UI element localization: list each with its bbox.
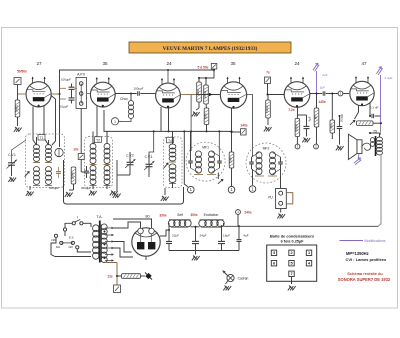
- dial lamp Cadran: [227, 274, 234, 281]
- transformer T1 dashed box: [26, 134, 65, 188]
- svg-text:VEUVE MARTIN 7 LAMPES (1932/1: VEUVE MARTIN 7 LAMPES (1932/1933): [163, 45, 258, 52]
- capacitor C5 2µF: [322, 91, 324, 95]
- svg-text:SONORA SUPER7 DE 1932: SONORA SUPER7 DE 1932: [338, 277, 391, 282]
- wire top grid bus: [60, 70, 215, 147]
- svg-text:Excitation: Excitation: [204, 213, 219, 217]
- wire R1 bottom: [17, 117, 19, 126]
- wire MF1 coil tan bottoms: [194, 174, 203, 176]
- svg-text:5: 5: [290, 262, 292, 266]
- antenna terminal box: [14, 78, 21, 85]
- wire V5 cathode: [297, 107, 299, 115]
- wire TA to V7 top a: [113, 222, 141, 228]
- wire selector loop: [51, 237, 91, 256]
- resistor R1 grid leak: [15, 100, 20, 117]
- svg-text:1: 1: [315, 145, 317, 149]
- svg-text:Schéma revisité du: Schéma revisité du: [347, 271, 383, 276]
- MF1 coil right: [209, 151, 215, 158]
- svg-text:10µµF: 10µµF: [60, 105, 69, 109]
- ground below T1: [26, 191, 34, 196]
- switch mark right of R13: [143, 271, 153, 281]
- svg-text:T4: T4: [168, 139, 172, 143]
- T4 switch: [162, 161, 169, 169]
- svg-text:1MEG: 1MEG: [15, 105, 19, 112]
- wire PU bottom: [280, 209, 282, 213]
- wire heater drop x117: [106, 262, 117, 264]
- choke Self winding: [169, 219, 191, 221]
- wire I left: [65, 223, 72, 236]
- purple mark 4.3µF: [375, 66, 383, 75]
- wire V4 plate to MF2: [247, 95, 253, 158]
- svg-text:80: 80: [145, 215, 149, 219]
- wire R13 right: [141, 275, 146, 277]
- capacitor C8 22µF: [166, 241, 172, 243]
- legend purple line: [340, 240, 364, 242]
- wire MF1 right drop: [217, 173, 219, 180]
- wire V3 plate to V4 grid: [181, 94, 197, 96]
- T5 small loops left: [371, 138, 375, 143]
- wire strip bottom down: [80, 109, 82, 154]
- wire B+ line: [224, 225, 379, 227]
- svg-text:T2: T2: [96, 138, 100, 142]
- svg-text:Cadran: Cadran: [238, 277, 249, 281]
- wire choke top: [130, 94, 132, 102]
- T4 label box: [167, 137, 174, 143]
- svg-text:Choc: Choc: [120, 97, 128, 101]
- svg-text:2: 2: [290, 251, 292, 255]
- tetrode tube V3 24: [156, 61, 181, 108]
- svg-text:6: 6: [273, 262, 275, 266]
- T5 winding: [377, 137, 383, 141]
- T1 coil primary bottom: [34, 166, 40, 171]
- wire R1 top: [17, 94, 19, 100]
- junction dots mid bus: [153, 130, 155, 132]
- wire mid bus: [104, 110, 232, 131]
- svg-text:T.A.: T.A.: [96, 215, 102, 219]
- wire plate V2 to C3: [115, 93, 137, 95]
- wire T5 down right: [378, 155, 381, 227]
- wire 7e to R5: [267, 84, 269, 95]
- svg-text:24: 24: [294, 61, 300, 66]
- svg-text:35: 35: [102, 61, 108, 66]
- fuse box: [114, 285, 121, 293]
- MF1 switch: [217, 178, 225, 185]
- IF transformer MF1 dashed circle: [186, 142, 225, 181]
- excitation winding: [200, 219, 224, 221]
- wire MF1 coil feed: [190, 95, 192, 152]
- wire choke bottom: [119, 118, 131, 122]
- wire antenna to grid: [17, 85, 19, 95]
- svg-text:110: 110: [56, 245, 61, 249]
- svg-text:25000: 25000: [71, 171, 75, 179]
- T2 capacitor: [84, 170, 89, 172]
- T2 coil B: [104, 143, 110, 149]
- wire T1 tops up: [36, 137, 38, 145]
- switch contact near R9: [349, 119, 357, 126]
- wire R7 top: [316, 94, 318, 109]
- svg-text:2µF: 2µF: [320, 86, 326, 90]
- tetrode tube V4 35: [220, 61, 246, 108]
- T1 coil secondary bottom: [46, 166, 52, 171]
- capacitor C7: [337, 126, 343, 128]
- T2 coil C: [90, 165, 96, 171]
- resistor box 140e: [241, 129, 247, 135]
- wire C8 bottom: [168, 244, 170, 251]
- pentode tube V6 47: [350, 61, 374, 106]
- PU side tab: [286, 193, 293, 204]
- resistor R10 tall: [71, 167, 76, 184]
- title banner: [129, 42, 291, 53]
- svg-text:10e: 10e: [73, 148, 79, 152]
- T1 coil primary top: [34, 145, 40, 150]
- svg-text:110: 110: [68, 245, 73, 249]
- ground near speaker: [336, 146, 344, 151]
- svg-text:240e: 240e: [244, 211, 252, 215]
- voice coil loop: [362, 143, 371, 150]
- T4 coil top: [169, 144, 176, 149]
- IF transformer MF2 dashed circle: [246, 143, 286, 183]
- wire one to V6: [343, 93, 349, 95]
- svg-text:220: 220: [51, 238, 56, 242]
- resistor R3: [204, 85, 209, 104]
- svg-text:145: 145: [314, 115, 318, 120]
- condenser cells row2: [271, 261, 276, 266]
- A.P.II terminals: [79, 82, 83, 86]
- T1 switch: [23, 170, 30, 178]
- wire T1 bottom gnd: [29, 186, 31, 190]
- wire V2 cathode down: [93, 106, 97, 144]
- wire one240 drop: [237, 214, 239, 226]
- svg-text:E.S.: E.S.: [69, 236, 75, 240]
- TA primary winding: [93, 225, 99, 232]
- wire strip to tube2: [87, 93, 91, 95]
- svg-text:30000: 30000: [295, 123, 299, 131]
- MF1 cap left: [188, 160, 193, 162]
- rectifier tube V7 80: [132, 228, 160, 256]
- svg-text:16µF: 16µF: [223, 234, 230, 238]
- wire V4 cathode down: [231, 108, 233, 152]
- TA taps: [105, 227, 113, 229]
- TA core: [99, 221, 101, 263]
- svg-text:145e: 145e: [318, 100, 326, 104]
- ground below lamp: [223, 286, 231, 291]
- selector lever: [61, 242, 73, 244]
- wire caps common: [169, 250, 239, 252]
- resistor R8 box: [330, 120, 335, 133]
- wire I to TA: [83, 222, 91, 224]
- wire lamp top: [223, 271, 228, 276]
- svg-text:200µµ: 200µµ: [340, 114, 344, 122]
- wire V6 cathode down: [358, 105, 360, 112]
- trimmer box 7e: [265, 77, 271, 84]
- MF1 cap right: [217, 160, 222, 162]
- ground below T2 a: [89, 191, 97, 196]
- wire V7 anodes from taps: [113, 242, 132, 253]
- resistor R5: [266, 100, 271, 118]
- A.P.II terminal link wire: [80, 84, 82, 104]
- variable capacitor CV2: [127, 161, 134, 163]
- svg-text:1: 1: [308, 251, 310, 255]
- wire CV1 bottom: [11, 165, 13, 176]
- wire V3 top bus drop: [167, 69, 169, 83]
- wire CV1 top: [12, 140, 27, 163]
- resistor R2: [197, 82, 202, 102]
- pickup PU box: [276, 189, 287, 209]
- capacitor C6 0.1nF: [371, 114, 373, 118]
- T2 coil D: [104, 165, 110, 171]
- wire R10 down: [73, 184, 75, 190]
- purple mark speaker: [357, 154, 360, 160]
- wire MF1 left drop: [183, 131, 185, 175]
- svg-text:7: 7: [290, 272, 292, 276]
- wire 10e: [80, 160, 82, 173]
- wire T2 downs: [92, 184, 94, 189]
- wire cap to bus: [60, 87, 67, 89]
- wire T4 bottom: [172, 182, 174, 188]
- condenser cells row1: [271, 250, 276, 255]
- wire T2 tops: [92, 132, 94, 145]
- ground below T2 left: [65, 192, 73, 197]
- capacitor C3 100µµF: [137, 91, 139, 95]
- T1 coil secondary top: [46, 145, 52, 150]
- svg-text:5 à 50e: 5 à 50e: [198, 66, 209, 70]
- wire C3 to V3: [140, 93, 155, 95]
- MF2 coil right: [270, 152, 276, 159]
- svg-text:500: 500: [330, 124, 334, 129]
- wire R7 bottom: [316, 127, 318, 144]
- svg-text:100µµF: 100µµF: [61, 78, 71, 82]
- wire R9 right: [373, 122, 381, 124]
- wire R8 down: [331, 133, 333, 139]
- terminal one near speaker: [314, 144, 319, 149]
- resistor box 10e: [78, 154, 84, 160]
- tetrode tube V5 24: [284, 61, 310, 107]
- svg-text:1: 1: [297, 145, 299, 149]
- svg-text:4µF: 4µF: [308, 116, 312, 121]
- resistor R11: [229, 152, 234, 168]
- wire T5 top: [379, 133, 381, 138]
- capacitor C2 plates: [69, 97, 75, 99]
- svg-text:50000: 50000: [265, 105, 269, 113]
- svg-text:35: 35: [230, 61, 236, 66]
- svg-text:5000: 5000: [204, 113, 208, 119]
- svg-text:6 fois 0.25µF: 6 fois 0.25µF: [281, 239, 305, 243]
- switch I contacts: [72, 222, 75, 225]
- T1 capacitor tan: [56, 171, 61, 173]
- wire 140e: [232, 131, 241, 133]
- svg-text:T1: T1: [40, 136, 44, 140]
- ground below caps: [192, 256, 200, 261]
- svg-text:A.P.II: A.P.II: [77, 73, 85, 77]
- speaker coil box: [357, 140, 362, 154]
- wire R3-R4: [205, 104, 208, 108]
- wire lamp bottom: [226, 281, 229, 285]
- ground below T2 b: [110, 191, 118, 196]
- T2 coil A: [90, 143, 96, 149]
- wire V6 plate down: [369, 103, 371, 117]
- voltage selector circles: [54, 234, 57, 237]
- svg-text:1500: 1500: [229, 157, 233, 163]
- svg-text:1: 1: [237, 210, 239, 214]
- svg-text:47: 47: [361, 61, 367, 66]
- tetrode tube V2 35: [90, 61, 115, 107]
- wire choke left: [168, 223, 170, 241]
- resistor R7: [314, 108, 319, 127]
- terminal one near V6: [338, 91, 343, 96]
- wire MF1 rightcap drop: [218, 131, 220, 156]
- wire TA to V7 top b: [113, 219, 152, 228]
- svg-text:5000: 5000: [196, 89, 200, 95]
- condenser box rect: [267, 245, 317, 281]
- wire T4-CV3 link: [149, 131, 154, 154]
- TA tap dots: [104, 231, 106, 233]
- MF2 cap left: [249, 161, 254, 163]
- trimmer box 5a50: [211, 64, 217, 70]
- wire left drop x333: [331, 94, 333, 121]
- ground below R2: [192, 112, 200, 117]
- svg-text:PU: PU: [268, 196, 273, 200]
- svg-text:12e: 12e: [107, 275, 113, 279]
- condenser cell 7: [289, 271, 294, 276]
- svg-text:1: 1: [114, 120, 116, 124]
- svg-text:2µF: 2µF: [322, 73, 328, 77]
- svg-text:Self: Self: [177, 213, 183, 217]
- wire condenser gnd: [291, 277, 293, 285]
- capacitor C1 plates: [69, 86, 75, 88]
- svg-text:Boîte de condensateurs: Boîte de condensateurs: [270, 233, 314, 238]
- variable capacitor CV1: [8, 162, 15, 164]
- svg-text:24µF: 24µF: [200, 234, 207, 238]
- wire V1 plate right: [51, 93, 59, 95]
- wire heater return loop: [64, 160, 184, 204]
- wire CV3 leads: [148, 154, 150, 164]
- svg-text:4µF: 4µF: [243, 234, 248, 238]
- T2 label box: [95, 137, 102, 143]
- resistor R13: [122, 274, 141, 279]
- svg-text:MP=1350Hz: MP=1350Hz: [346, 251, 369, 256]
- svg-text:24: 24: [166, 61, 172, 66]
- svg-text:4.3µF: 4.3µF: [385, 76, 393, 80]
- T1 trimmer circle: [55, 148, 63, 156]
- svg-text:CVI : Lames profilées: CVI : Lames profilées: [346, 257, 387, 262]
- TA secondary winding: [101, 224, 107, 230]
- T4 coil bottom: [169, 164, 176, 169]
- svg-text:C.V.1: C.V.1: [8, 153, 16, 157]
- purple mark 2µF: [312, 62, 320, 71]
- svg-text:3: 3: [273, 251, 275, 255]
- resistor divider top link: [199, 77, 214, 79]
- A.P.II box: [76, 78, 87, 109]
- resistor R9: [357, 121, 374, 126]
- svg-text:330e: 330e: [159, 214, 167, 218]
- choke coil: [128, 100, 133, 105]
- wire CV2 leads: [129, 152, 131, 162]
- wire V1 cathode down: [33, 107, 37, 146]
- svg-text:I: I: [77, 216, 78, 220]
- wire V3 cathode down: [160, 107, 162, 131]
- svg-text:100µµF: 100µµF: [134, 87, 144, 91]
- wire V7 cathode right: [160, 230, 169, 236]
- switch ground right: [302, 138, 310, 143]
- PU terminals: [279, 191, 283, 195]
- svg-text:Modifications: Modifications: [365, 239, 386, 243]
- triode tube V1 27: [26, 61, 51, 107]
- terminal one below MF2 left: [249, 186, 256, 193]
- svg-text:MF1: MF1: [202, 146, 209, 150]
- ground below T4: [161, 196, 169, 201]
- svg-text:300e: 300e: [190, 213, 198, 217]
- svg-text:7e: 7e: [266, 71, 270, 75]
- svg-text:0.1 nF: 0.1 nF: [370, 106, 379, 110]
- MF2 coil left: [256, 152, 262, 159]
- ground below R1: [14, 127, 22, 132]
- wire one V4 drop: [252, 169, 254, 185]
- svg-text:1: 1: [340, 92, 342, 96]
- wire R2 top: [198, 78, 200, 82]
- svg-text:300µµF: 300µµF: [49, 186, 59, 190]
- wire MF2 right down to PU: [280, 169, 282, 188]
- ground below condenser box: [288, 286, 296, 291]
- wire T4 top: [172, 132, 174, 145]
- wire MF2 coil tan bottoms: [255, 175, 264, 177]
- transformer T4 dashed box: [164, 137, 183, 188]
- terminal one below R11: [228, 186, 235, 193]
- speaker cone: [348, 134, 357, 159]
- svg-text:22µF: 22µF: [172, 234, 179, 238]
- MF2 cap right: [278, 161, 283, 163]
- MF1 coil left: [196, 151, 202, 158]
- battery circle B: [111, 118, 118, 125]
- wire R11: [231, 168, 233, 187]
- variable capacitor CV3: [146, 163, 153, 165]
- svg-text:27: 27: [36, 61, 42, 66]
- svg-text:140e: 140e: [240, 124, 248, 128]
- terminal one x297: [295, 144, 300, 149]
- wire choke right to excitation: [191, 226, 200, 228]
- svg-text:50/50e: 50/50e: [17, 70, 27, 74]
- wire selector to TA: [77, 249, 91, 252]
- transformer T2 dashed box: [85, 137, 113, 188]
- resistor R6: [295, 119, 300, 137]
- output transformer T5 core: [375, 136, 377, 156]
- terminal one 240e: [236, 210, 241, 215]
- T1 label box: [38, 135, 45, 141]
- ground below PU: [277, 214, 285, 219]
- svg-text:MF2: MF2: [263, 147, 270, 151]
- svg-text:7.2e: 7.2e: [288, 108, 295, 112]
- resistor R4: [204, 108, 209, 125]
- wire R4 down: [206, 125, 208, 132]
- ground below R5: [264, 127, 272, 132]
